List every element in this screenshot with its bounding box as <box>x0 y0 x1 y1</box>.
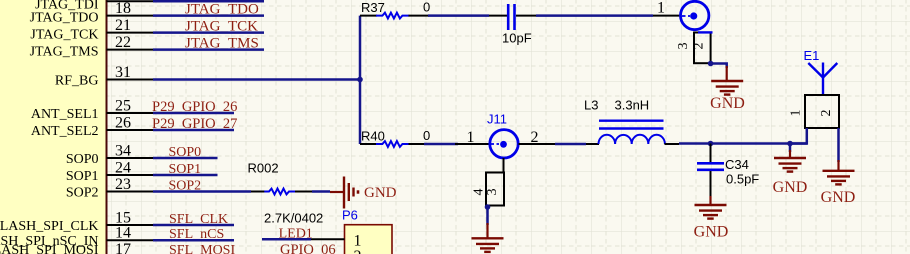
svg-text:R002: R002 <box>248 161 279 176</box>
power port GND (right-pointing) <box>330 177 397 209</box>
svg-text:18: 18 <box>115 0 131 17</box>
svg-text:10pF: 10pF <box>502 31 532 46</box>
wire R37 to capacitor <box>428 14 489 17</box>
svg-text:0: 0 <box>423 0 430 15</box>
node junction at connector bottom <box>708 61 714 67</box>
svg-text:SFL_MOSI: SFL_MOSI <box>169 243 235 254</box>
svg-text:JTAG_TDO: JTAG_TDO <box>30 11 99 26</box>
svg-text:GND: GND <box>710 95 745 112</box>
svg-text:JTAG_TMS: JTAG_TMS <box>30 45 99 60</box>
svg-text:P6: P6 <box>342 208 358 223</box>
ground GND (far right) <box>821 160 856 206</box>
svg-text:R37: R37 <box>361 0 385 15</box>
svg-text:SOP0: SOP0 <box>66 152 99 167</box>
wire E1 pin1 down to antenna net <box>790 128 807 144</box>
wire down to GND (mid right) <box>789 144 792 153</box>
svg-text:ANT_SEL2: ANT_SEL2 <box>31 124 99 139</box>
pin 15 FLASH_SPI_CLK <box>0 210 154 235</box>
capacitor 10pF <box>489 4 536 46</box>
node junction at C34 <box>708 141 714 147</box>
connector J11 pin 1 <box>455 112 518 159</box>
svg-text:31: 31 <box>115 64 131 81</box>
svg-text:C34: C34 <box>725 157 749 172</box>
svg-text:ANT_SEL1: ANT_SEL1 <box>31 107 99 122</box>
svg-text:2: 2 <box>819 110 834 117</box>
wire net RF_BG <box>153 78 360 81</box>
wire net P29_GPIO_27 <box>153 129 234 132</box>
pin 14 FLASH_SPI_nSC_IN <box>0 225 154 250</box>
svg-text:3.3nH: 3.3nH <box>615 98 650 113</box>
wire net JTAG_TMS <box>153 48 264 51</box>
resistor R40 <box>360 128 430 147</box>
ground GND (below J11) <box>472 223 504 252</box>
svg-text:25: 25 <box>115 98 131 115</box>
svg-text:SOP1: SOP1 <box>66 169 99 184</box>
svg-text:GPIO_06: GPIO_06 <box>280 242 336 254</box>
svg-text:0: 0 <box>423 128 430 143</box>
E1 body pins 1,2 <box>789 95 840 128</box>
coax connector body pins 3,2 <box>676 32 713 63</box>
svg-text:L3: L3 <box>584 98 598 113</box>
wire net SOP1 <box>153 174 218 177</box>
pin 31 RF_BG <box>55 64 154 89</box>
wire connector pin2 to GND <box>711 64 727 69</box>
svg-text:3: 3 <box>676 43 691 50</box>
svg-text:GND: GND <box>821 189 856 206</box>
connector P6 body <box>342 208 392 254</box>
svg-text:24: 24 <box>115 160 131 177</box>
wire L3 to antenna <box>679 142 807 145</box>
svg-text:RF_BG: RF_BG <box>55 74 99 89</box>
svg-text:SOP2: SOP2 <box>66 186 99 201</box>
svg-text:14: 14 <box>115 225 131 242</box>
MCU component body (partial, left edge off-screen) <box>0 0 107 254</box>
pin 23 SOP2 <box>66 176 154 201</box>
node junction at RF branch <box>357 77 363 83</box>
svg-text:21: 21 <box>115 17 131 34</box>
node junction at J11 body bottom <box>485 204 491 210</box>
svg-text:26: 26 <box>115 115 131 132</box>
pin 18 JTAG_TDO <box>30 0 154 26</box>
svg-text:1: 1 <box>354 232 362 249</box>
pin 22 JTAG_TMS <box>30 34 154 60</box>
wire capacitor to coax connector <box>536 14 653 17</box>
ground GND (below C34) <box>694 196 729 241</box>
svg-text:22: 22 <box>115 34 131 51</box>
capacitor C34 <box>697 144 759 199</box>
pin 17 FLASH_SPI_MOSI <box>0 241 154 254</box>
svg-text:23: 23 <box>115 176 131 193</box>
svg-text:2.7K/0402: 2.7K/0402 <box>264 211 323 226</box>
inductor L3 <box>584 98 679 145</box>
wire net SFL_nCS <box>153 239 234 242</box>
wire net P29_GPIO_26 <box>153 112 234 115</box>
wire net SOP0 <box>153 157 218 160</box>
wire net JTAG_TDI <box>153 0 264 2</box>
svg-text:1: 1 <box>657 0 665 17</box>
wire net JTAG_TCK <box>153 31 264 34</box>
svg-text:2: 2 <box>692 43 707 50</box>
wire net SOP2 <box>153 190 251 193</box>
svg-text:1: 1 <box>789 110 804 117</box>
svg-text:E1: E1 <box>804 48 820 63</box>
pin 24 SOP1 <box>66 160 154 185</box>
pin 26 ANT_SEL2 <box>31 115 154 140</box>
pin (top, clipped) JTAG_TDI <box>35 0 153 13</box>
svg-text:GND: GND <box>694 224 729 241</box>
pin 25 ANT_SEL1 <box>31 98 154 123</box>
wire J11 body to GND <box>486 206 489 226</box>
J11 pin 2 wire <box>519 143 556 145</box>
svg-text:34: 34 <box>115 143 131 160</box>
svg-text:3: 3 <box>485 189 500 196</box>
svg-text:GND: GND <box>773 179 808 196</box>
pin 34 SOP0 <box>66 143 154 168</box>
wire net SFL_CLK <box>153 224 234 227</box>
svg-text:FLASH_SPI_CLK: FLASH_SPI_CLK <box>0 219 99 234</box>
wire E1 pin2 to GND <box>837 128 840 162</box>
wire J11 to L3 <box>555 143 586 146</box>
wire vertical branch x=360 <box>359 16 362 144</box>
ground GND (mid right) <box>773 150 808 196</box>
svg-text:0.5pF: 0.5pF <box>726 172 759 187</box>
wire R40 to J11 <box>424 143 458 146</box>
wire net JTAG_TDO <box>153 14 264 17</box>
svg-text:J11: J11 <box>487 112 507 127</box>
coax connector (top) pin 1 <box>653 0 709 30</box>
J11 body pins 4,3 <box>472 158 505 206</box>
svg-text:2: 2 <box>531 129 539 146</box>
wire R002 to GND port <box>312 190 330 193</box>
svg-text:JTAG_TCK: JTAG_TCK <box>30 28 98 43</box>
svg-text:FLASH_SPI_MOSI: FLASH_SPI_MOSI <box>0 243 99 254</box>
pin 21 JTAG_TCK <box>30 17 153 42</box>
svg-text:2: 2 <box>354 248 362 254</box>
ground GND (top right) <box>710 66 745 112</box>
antenna E1 <box>804 48 838 95</box>
resistor R002 <box>248 161 324 226</box>
P6 pin 1 wire net LED1 <box>262 238 345 241</box>
resistor R37 <box>360 0 430 19</box>
svg-text:GND: GND <box>364 185 397 201</box>
svg-text:17: 17 <box>115 241 131 254</box>
node junction at GND branch <box>787 141 793 147</box>
svg-text:R40: R40 <box>361 129 385 144</box>
svg-text:1: 1 <box>467 129 475 146</box>
